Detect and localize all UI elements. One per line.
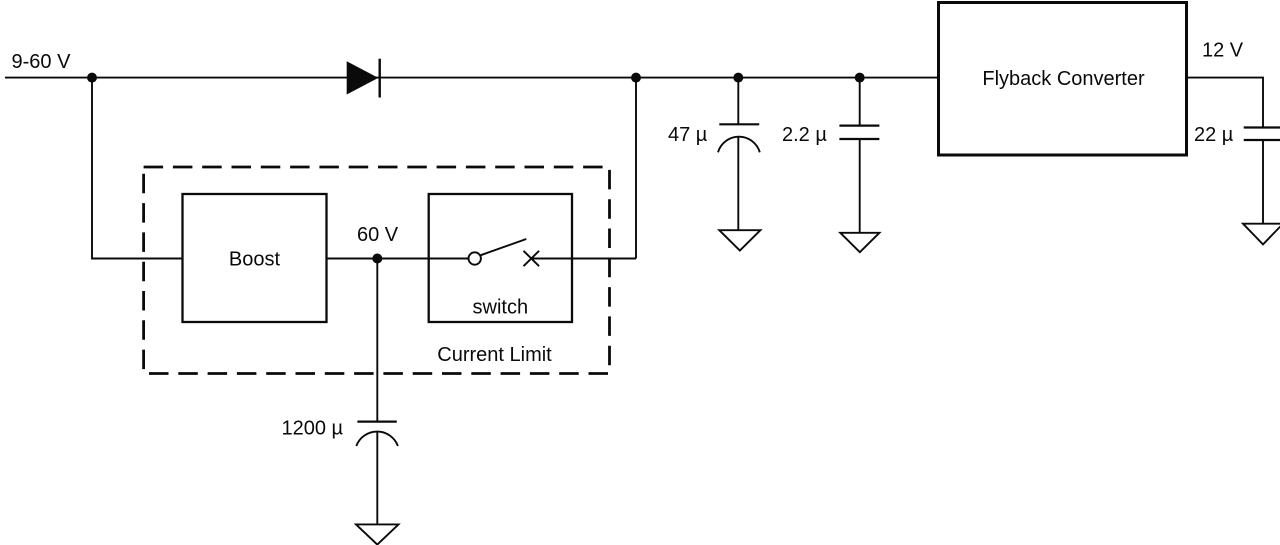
ground (C1200) xyxy=(356,524,399,544)
svg-text:Boost: Boost xyxy=(229,248,281,270)
node: top rail junction at riser xyxy=(631,73,641,83)
block Boost xyxy=(183,194,327,322)
node: input junction xyxy=(87,73,97,83)
svg-text:12 V: 12 V xyxy=(1202,40,1244,62)
wire: 60V node down to C1200 xyxy=(376,259,378,422)
capacitor C3 2.2µ xyxy=(839,126,879,139)
svg-text:Current Limit: Current Limit xyxy=(437,344,552,366)
switch symbol xyxy=(429,239,539,266)
svg-text:Flyback Converter: Flyback Converter xyxy=(982,68,1145,90)
wire: riser to top rail xyxy=(635,78,637,259)
wire: main top rail xyxy=(5,77,939,79)
wire: input drop to Boost xyxy=(92,78,183,259)
ground (C2.2) xyxy=(840,233,879,252)
svg-text:1200 µ: 1200 µ xyxy=(282,417,344,439)
wire: C1200 to ground xyxy=(376,432,378,524)
capacitor C2 47µ xyxy=(718,124,760,152)
block switch xyxy=(429,194,572,322)
node: rail at 2.2µ xyxy=(855,73,865,83)
wire: flyback output xyxy=(1187,78,1264,128)
svg-text:2.2 µ: 2.2 µ xyxy=(782,124,827,146)
wire: Boost to switch xyxy=(327,258,429,260)
capacitor C4 22µ xyxy=(1244,128,1280,141)
dashed enclosure: Current Limit block xyxy=(144,167,610,374)
svg-text:60 V: 60 V xyxy=(357,224,399,246)
svg-text:22 µ: 22 µ xyxy=(1194,124,1234,146)
wire: rail to C47 xyxy=(737,78,739,125)
block Flyback Converter xyxy=(939,3,1187,156)
ground (C47) xyxy=(719,230,760,250)
wire: rail to C2.2 xyxy=(859,78,861,126)
wire: C47 to ground xyxy=(737,138,739,231)
svg-text:9-60 V: 9-60 V xyxy=(12,51,72,73)
ground (C22) xyxy=(1243,224,1280,245)
wire: C2.2 to ground xyxy=(859,139,861,233)
diode D1 xyxy=(347,59,380,98)
node: 60 V junction xyxy=(372,254,382,264)
svg-text:47 µ: 47 µ xyxy=(668,124,708,146)
wire: switch to riser xyxy=(531,258,636,260)
node: rail at 47µ xyxy=(733,73,743,83)
svg-text:switch: switch xyxy=(473,297,529,319)
capacitor C1 1200µ xyxy=(356,422,398,446)
wire: C22 to ground xyxy=(1262,140,1264,224)
